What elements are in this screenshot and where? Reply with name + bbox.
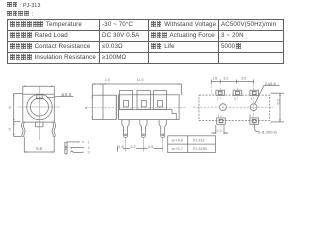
v2 leg 3 (159, 120, 166, 138)
v1 phi3.6 leader (47, 96, 74, 98)
v1 key notch top (37, 95, 43, 99)
v3 top pad 3 (233, 88, 242, 99)
svg-text:6.3: 6.3 (276, 99, 280, 104)
v2 barrel (92, 95, 116, 119)
svg-text:5.6: 5.6 (36, 146, 42, 151)
v2 contact 3 (158, 101, 163, 107)
v3 hole B (250, 104, 257, 111)
svg-text:PJ-313B: PJ-313B (193, 147, 207, 151)
svg-text:PJ-313: PJ-313 (193, 139, 204, 143)
v2 leg 1 hole (125, 134, 127, 136)
v1 inner circle (31, 98, 49, 116)
v3 bottom pad 5 (250, 118, 259, 124)
v1 left leg (21, 122, 25, 136)
v1 bottom dimension 5.6 (24, 137, 54, 153)
v2 body (119, 95, 180, 120)
v2 top dimension lines (92, 83, 181, 95)
v3 bottom dimension 2.5 (212, 125, 229, 134)
svg-text:a=+0.7: a=+0.7 (172, 147, 183, 151)
v3 hole B vertical centerline (253, 85, 255, 127)
header tech spec label (7, 11, 33, 18)
svg-text:1.8: 1.8 (118, 145, 123, 149)
v2 contact tower 2 (137, 91, 151, 110)
svg-text:3: 3 (88, 151, 90, 155)
v2 bottom dimension line (117, 138, 162, 152)
v2 height dim arrows on barrel edge (92, 95, 94, 119)
v2 barrel front edge (102, 84, 104, 120)
header model number (7, 2, 40, 9)
svg-text:2: 2 (88, 146, 90, 150)
v2 contact 1 (124, 101, 129, 107)
svg-text:1: 1 (88, 141, 90, 145)
v3 leader to bottom pad 5 (254, 124, 257, 132)
v2 contact tower 3 (153, 91, 166, 110)
svg-text:5: 5 (249, 114, 251, 118)
v3 bottom pad 1 (217, 115, 226, 126)
contact line 1 (67, 141, 84, 142)
svg-text:5: 5 (9, 127, 12, 132)
svg-text:3.9: 3.9 (148, 145, 153, 149)
v2 flange (115, 95, 117, 119)
svg-text:11.5: 11.5 (137, 78, 144, 82)
v1 body rectangle (23, 94, 55, 122)
svg-text:1: 1 (217, 114, 219, 118)
v3 hole A (220, 104, 227, 111)
svg-text:8: 8 (9, 105, 12, 110)
v2 dashed centerline (87, 107, 186, 109)
v2 contact tower 1 (119, 91, 132, 110)
v1 horizontal centerline (18, 106, 61, 108)
v3 horizontal centerline (193, 106, 274, 108)
contact line 2 (69, 147, 83, 149)
v2 internal shelf line (119, 109, 172, 111)
technical drawing (0, 0, 300, 194)
v3 right dimension 6.3 (271, 93, 285, 122)
v1 outer circle (27, 94, 52, 119)
v2 leg 2 hole (143, 134, 145, 136)
v1 vertical centerline (39, 86, 41, 140)
v3 top pad 4 (250, 90, 259, 95)
v3 left reference dashed line (210, 83, 212, 94)
svg-text:×: × (85, 105, 88, 110)
svg-text:a=+0.8: a=+0.8 (172, 139, 183, 143)
v1 right leg (52, 122, 56, 136)
svg-text:5-(1.3X0.9): 5-(1.3X0.9) (258, 131, 276, 135)
v1 top dimension line (23, 85, 55, 94)
v2 leg 3 hole (162, 134, 164, 136)
v3 outline dashed rect (199, 95, 270, 120)
svg-text:2.5: 2.5 (217, 129, 222, 133)
plug symbol (65, 142, 67, 154)
v2 leg 2 (140, 120, 147, 138)
v2 right step (172, 110, 176, 120)
contact line 3 (70, 151, 83, 153)
v3 hole A crosslines (222, 103, 224, 112)
v3 top dimension line (211, 80, 253, 84)
v1 left dimension line (13, 93, 23, 136)
spec table (7, 19, 284, 64)
svg-text:2.5: 2.5 (105, 78, 110, 82)
v1 key slot bottom (36, 122, 44, 127)
svg-text:2: 2 (217, 97, 219, 101)
v3 leader to hole B (255, 86, 280, 105)
svg-text:1.8: 1.8 (212, 76, 217, 80)
svg-text:3: 3 (234, 97, 236, 101)
svg-text:3.2: 3.2 (223, 76, 228, 80)
svg-text:3.2: 3.2 (130, 145, 135, 149)
v2 contact 2 (141, 101, 146, 107)
svg-text:3.5: 3.5 (241, 76, 246, 80)
v3 top pad 2 (216, 88, 225, 99)
v2 leg 1 (122, 120, 129, 138)
svg-text:4: 4 (251, 97, 253, 101)
